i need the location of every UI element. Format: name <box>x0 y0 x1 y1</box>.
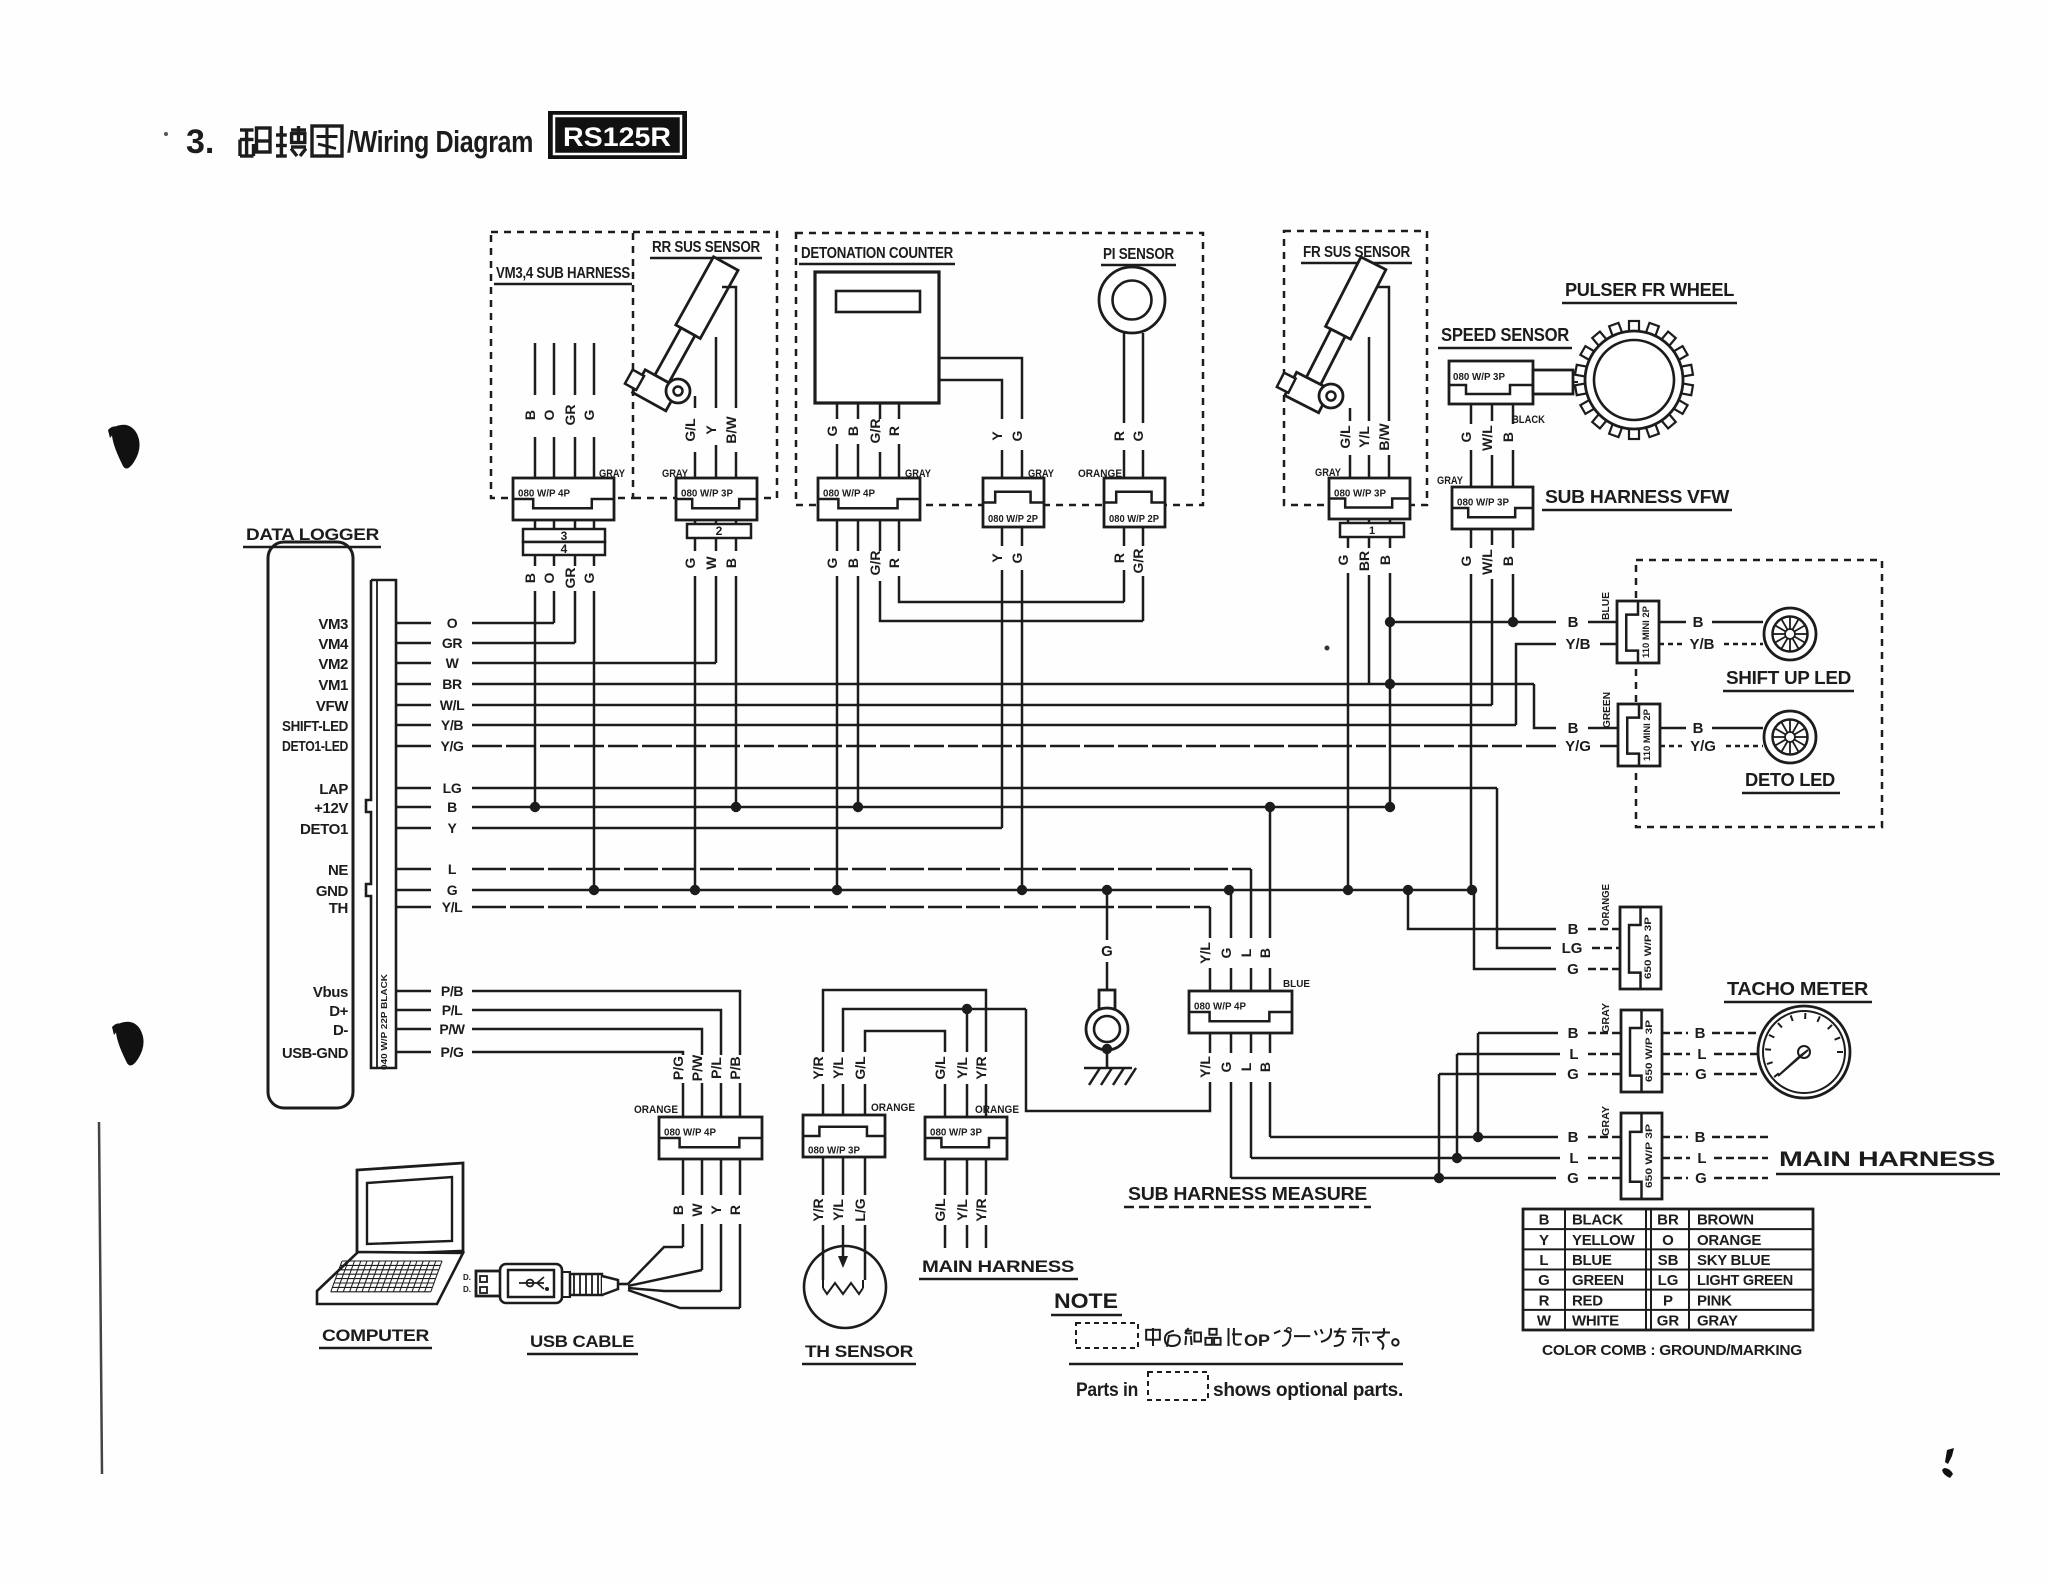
svg-text:GR: GR <box>562 568 578 589</box>
svg-text:VM4: VM4 <box>318 636 349 653</box>
junction dots main harness bus <box>1473 1132 1483 1142</box>
svg-text:Y/B: Y/B <box>1689 636 1714 653</box>
svg-text:R: R <box>1111 553 1127 563</box>
svg-text:O: O <box>447 615 458 631</box>
svg-text:110 MINI 2P: 110 MINI 2P <box>1642 708 1653 761</box>
wire stubs and colour labels at data logger <box>396 622 431 625</box>
connector 110 MINI 2P (deto LED) <box>1618 704 1660 766</box>
USB wires below connector <box>682 1159 685 1195</box>
svg-text:L: L <box>448 861 457 877</box>
wire det B to +12V row <box>857 576 860 807</box>
svg-text:Y/L: Y/L <box>954 1199 970 1221</box>
svg-text:NE: NE <box>328 862 348 879</box>
svg-text:COLOR COMB : GROUND/MARKING: COLOR COMB : GROUND/MARKING <box>1542 1342 1802 1359</box>
svg-text:B: B <box>1695 1025 1706 1042</box>
svg-text:B: B <box>1568 1129 1579 1146</box>
svg-text:G: G <box>824 557 840 568</box>
wire det G to GND row <box>836 576 839 890</box>
RR wires lower <box>694 538 697 551</box>
svg-text:080 W/P 3P: 080 W/P 3P <box>1334 487 1386 499</box>
detonation counter body <box>815 272 939 403</box>
wire TH Y/L link with junction to main harness <box>843 1009 1026 1117</box>
wire Y to DETO1 row <box>1001 570 1004 828</box>
svg-text:L: L <box>1569 1046 1578 1063</box>
svg-text:B: B <box>1568 614 1579 631</box>
FR sensor wires upper <box>1378 287 1389 421</box>
ground lug <box>1099 990 1115 1012</box>
USB cable ridges <box>570 1274 602 1295</box>
svg-text:Y/L: Y/L <box>830 1057 846 1079</box>
svg-text:Y/L: Y/L <box>830 1199 846 1221</box>
main harness wires below connector <box>944 1159 947 1195</box>
svg-text:RED: RED <box>1572 1292 1603 1309</box>
svg-text:USB CABLE: USB CABLE <box>530 1332 634 1351</box>
junction dot Y/L <box>962 1004 972 1014</box>
svg-text:P/L: P/L <box>708 1057 724 1079</box>
Japanese note text <box>1146 1330 1160 1340</box>
svg-text:R: R <box>1539 1292 1550 1309</box>
svg-text:DETO1-LED: DETO1-LED <box>282 738 348 755</box>
svg-text:080 W/P 4P: 080 W/P 4P <box>518 488 570 500</box>
svg-text:SUB HARNESS VFW: SUB HARNESS VFW <box>1545 487 1729 507</box>
wire P/W row D- <box>472 1029 702 1055</box>
svg-text:L: L <box>1569 1150 1578 1167</box>
svg-text:Y: Y <box>708 1205 724 1215</box>
svg-text:DATA LOGGER: DATA LOGGER <box>246 525 379 544</box>
connector 110 MINI 2P (shift LED) <box>1617 601 1659 663</box>
svg-text:O: O <box>541 572 557 583</box>
svg-text:BR: BR <box>1657 1212 1679 1229</box>
tacho connector left wires <box>1478 1032 1558 1035</box>
speed sensor wires to VFW connector <box>1470 404 1473 424</box>
svg-text:shows optional parts.: shows optional parts. <box>1213 1380 1403 1401</box>
svg-text:ORANGE: ORANGE <box>1601 884 1612 926</box>
pin number box 2 <box>687 524 751 538</box>
wire B line to SHIFT UP LED connector <box>1390 621 1556 624</box>
connector 080 W/P 3P (main harness) <box>925 1117 1007 1159</box>
svg-text:PINK: PINK <box>1697 1292 1732 1309</box>
svg-text:ORANGE: ORANGE <box>1697 1232 1761 1249</box>
svg-text:GRAY: GRAY <box>1697 1312 1738 1329</box>
svg-text:COMPUTER: COMPUTER <box>322 1326 429 1345</box>
svg-text:G: G <box>1458 431 1474 442</box>
scan artifact blob left upper <box>112 425 140 469</box>
pin number box 1 <box>1340 523 1404 537</box>
svg-text:B: B <box>1500 432 1516 442</box>
svg-text:1: 1 <box>1369 525 1375 537</box>
svg-text:+12V: +12V <box>314 800 348 817</box>
wire G/R down to det G/R link <box>1142 576 1145 621</box>
RR sensor wires upper <box>722 287 736 408</box>
svg-text:G: G <box>824 425 840 436</box>
PI wires below <box>1123 527 1126 546</box>
dashed option sample box 1 <box>1076 1323 1138 1348</box>
svg-text:Y/L: Y/L <box>442 899 463 915</box>
svg-text:R: R <box>886 426 902 436</box>
wire P/B row Vbus <box>472 991 740 1055</box>
svg-text:W/L: W/L <box>1479 425 1495 451</box>
svg-text:Y/L: Y/L <box>1356 426 1372 448</box>
pin number boxes 3 / 4 <box>523 529 605 542</box>
svg-text:PI SENSOR: PI SENSOR <box>1103 246 1175 263</box>
svg-text:D+: D+ <box>329 1003 348 1020</box>
FR suspension sensor drawing <box>1275 250 1390 413</box>
wire G to GND row <box>694 576 697 890</box>
svg-text:G: G <box>1009 552 1025 563</box>
svg-text:YELLOW: YELLOW <box>1572 1232 1636 1249</box>
svg-text:BLACK: BLACK <box>1512 414 1545 426</box>
wire O row VM3 <box>472 622 554 625</box>
wire LG feed from LAP row <box>1497 788 1551 948</box>
wire LG row LAP <box>472 787 1497 790</box>
wire VFW B to LED B line <box>1512 574 1515 622</box>
svg-text:G: G <box>1218 1061 1234 1072</box>
connector 080 W/P 4P (det) <box>818 478 920 520</box>
svg-text:080 W/P 3P: 080 W/P 3P <box>930 1127 982 1139</box>
svg-text:SKY BLUE: SKY BLUE <box>1697 1252 1770 1269</box>
wire L row NE <box>472 868 1251 871</box>
svg-text:080 W/P 2P: 080 W/P 2P <box>988 513 1038 525</box>
deto LED right wires <box>1660 727 1686 730</box>
wire det G/R to PI G/R <box>880 581 1143 621</box>
wire Y/B row SHIFT-LED <box>472 724 1516 727</box>
TH sensor thermistor <box>822 1225 825 1280</box>
svg-text:B: B <box>522 410 538 420</box>
svg-text:W: W <box>703 556 719 570</box>
svg-text:TH SENSOR: TH SENSOR <box>805 1342 913 1361</box>
svg-text:080 W/P 3P: 080 W/P 3P <box>1457 497 1509 509</box>
wire BR row VM1 extending to DETO LED B feed <box>472 683 1534 686</box>
svg-text:Y: Y <box>989 553 1005 563</box>
svg-text:D-: D- <box>333 1022 348 1039</box>
svg-text:GREEN: GREEN <box>1602 692 1613 728</box>
tacho meter gauge <box>1758 1006 1850 1098</box>
svg-text:Y/B: Y/B <box>441 717 463 733</box>
svg-text:Y/G: Y/G <box>1565 738 1591 755</box>
svg-text:B/W: B/W <box>723 416 739 444</box>
VM3,4 harness wires upper <box>534 343 537 395</box>
svg-text:B: B <box>1568 720 1579 737</box>
svg-text:O: O <box>541 409 557 420</box>
svg-text:L: L <box>1238 948 1254 957</box>
scan artifact blob left lower <box>116 1022 144 1066</box>
svg-text:080 W/P 4P: 080 W/P 4P <box>823 488 875 500</box>
title badge RS125R <box>548 111 687 159</box>
connector 080 W/P 3P (TH sensor) <box>803 1115 885 1157</box>
RR suspension sensor drawing <box>623 249 742 411</box>
wire G to main-harness G bus <box>1230 1082 1233 1178</box>
svg-text:MAIN HARNESS: MAIN HARNESS <box>1779 1148 1995 1171</box>
connector 080 W/P 3P (FR) <box>1329 478 1410 519</box>
svg-text:GRAY: GRAY <box>1601 1003 1612 1033</box>
detonation counter display window <box>836 291 920 312</box>
svg-text:P: P <box>1663 1292 1673 1309</box>
svg-text:3.: 3. <box>186 123 214 161</box>
svg-text:VM2: VM2 <box>318 656 348 673</box>
tacho B L G bus verticals <box>1477 1033 1480 1137</box>
svg-text:L: L <box>1697 1150 1706 1167</box>
svg-text:Y: Y <box>448 820 458 836</box>
svg-text:Y: Y <box>989 431 1005 441</box>
wire GR row VM4 <box>472 642 575 645</box>
svg-text:SPEED SENSOR: SPEED SENSOR <box>1441 325 1569 345</box>
svg-text:G/R: G/R <box>1130 549 1146 574</box>
svg-text:G: G <box>1335 554 1351 565</box>
svg-text:SHIFT-LED: SHIFT-LED <box>282 718 348 735</box>
svg-text:B: B <box>522 573 538 583</box>
svg-text:G: G <box>581 409 597 420</box>
svg-text:BROWN: BROWN <box>1697 1212 1754 1229</box>
svg-text:B: B <box>845 558 861 568</box>
connector 080 W/P 4P (VM3,4) <box>513 478 614 520</box>
svg-text:LG: LG <box>1658 1272 1679 1289</box>
svg-text:P/L: P/L <box>442 1002 463 1018</box>
wire Y/G into DETO LED connector <box>1558 745 1560 747</box>
wire GR to VM4 row <box>574 591 577 643</box>
svg-text:SB: SB <box>1658 1252 1679 1269</box>
pulser ring gear <box>1575 321 1693 439</box>
svg-text:P/W: P/W <box>439 1021 465 1037</box>
tacho right wires <box>1662 1032 1688 1035</box>
svg-text:L/G: L/G <box>852 1198 868 1221</box>
svg-text:BR: BR <box>442 676 462 692</box>
svg-text:Y/G: Y/G <box>1690 738 1716 755</box>
svg-text:G/L: G/L <box>852 1056 868 1080</box>
PI sensor wires <box>1123 332 1126 423</box>
RR sensor pivot eye <box>666 379 690 403</box>
svg-text:USB-GND: USB-GND <box>282 1045 349 1062</box>
connector 080 W/P 2P (PI) <box>1104 478 1165 527</box>
svg-text:G: G <box>1458 555 1474 566</box>
TH sensor wires below connector <box>822 1157 825 1195</box>
svg-text:Vbus: Vbus <box>313 984 348 1001</box>
svg-text:G: G <box>447 882 458 898</box>
svg-text:G: G <box>1567 961 1579 978</box>
svg-text:O: O <box>1662 1232 1674 1249</box>
connector 080 W/P 3P (SUB HARNESS VFW) <box>1452 487 1533 529</box>
laptop keyboard grid <box>331 1261 442 1292</box>
svg-text:BLUE: BLUE <box>1601 592 1612 620</box>
wire B to +12V row <box>735 576 738 807</box>
ground wire from GND row <box>1106 890 1109 940</box>
dashed option box SHIFT UP LED / DETO LED <box>1636 560 1882 827</box>
svg-text:D.: D. <box>463 1285 471 1294</box>
svg-text:DETO1: DETO1 <box>300 821 348 838</box>
svg-text:Y/R: Y/R <box>810 1056 826 1079</box>
data logger 22P connector bar <box>366 580 396 1068</box>
FR wires lower <box>1347 537 1350 548</box>
svg-text:GR: GR <box>562 405 578 426</box>
svg-text:4: 4 <box>561 542 568 556</box>
svg-text:B: B <box>1539 1212 1550 1229</box>
svg-text:B: B <box>1568 1025 1579 1042</box>
svg-text:B: B <box>447 799 457 815</box>
wire W to VM2 row <box>715 576 718 663</box>
svg-text:G: G <box>1218 947 1234 958</box>
svg-text:Y/L: Y/L <box>954 1057 970 1079</box>
scan artifact vertical line left margin <box>99 1122 102 1474</box>
svg-text:650 W/P 3P: 650 W/P 3P <box>1643 916 1654 979</box>
svg-text:Y/R: Y/R <box>973 1198 989 1221</box>
dashed option box FR SUS SENSOR <box>1284 231 1427 505</box>
svg-text:080 W/P 3P: 080 W/P 3P <box>1453 371 1505 383</box>
svg-text:L: L <box>1697 1046 1706 1063</box>
svg-text:G/L: G/L <box>1337 425 1353 449</box>
dashed option sample box 2 <box>1148 1372 1208 1400</box>
wire B row +12V <box>472 806 1390 809</box>
det wires below connector <box>836 520 839 551</box>
det counter wires to connector <box>836 403 839 419</box>
svg-text:ORANGE: ORANGE <box>871 1102 915 1114</box>
connector 650 W/P 3P (orange, tacho harness) <box>1620 907 1661 989</box>
svg-text:040 W/P 22P BLACK: 040 W/P 22P BLACK <box>379 973 389 1070</box>
svg-text:W: W <box>1537 1312 1552 1329</box>
svg-text:G/R: G/R <box>867 419 883 444</box>
wire TH Y/R link <box>823 990 986 1117</box>
connector 080 W/P 3P (RR) <box>676 478 757 520</box>
wire W row VM2 <box>472 662 716 665</box>
wire Y/B up from SHIFT-LED row <box>1516 644 1556 725</box>
svg-text:G: G <box>1695 1170 1707 1187</box>
junction dots GND G net <box>589 885 599 895</box>
svg-text:L: L <box>1539 1252 1548 1269</box>
wire L to main-harness L bus <box>1250 1082 1253 1158</box>
svg-text:B: B <box>1500 556 1516 566</box>
svg-text:VM3: VM3 <box>318 616 348 633</box>
PI sensor ring <box>1099 267 1165 333</box>
svg-text:B: B <box>670 1205 686 1215</box>
svg-text:MAIN HARNESS: MAIN HARNESS <box>922 1257 1074 1276</box>
wire Y/L row TH <box>472 906 1210 909</box>
svg-text:BLACK: BLACK <box>1572 1212 1623 1229</box>
wire B to +12V row <box>534 591 537 807</box>
svg-text:GR: GR <box>1657 1312 1680 1329</box>
connector 080 W/P 2P (det) <box>983 478 1044 527</box>
svg-text:BLUE: BLUE <box>1283 978 1310 990</box>
wire G row GND <box>472 889 1474 892</box>
wire FR B to +12V row (junctions with LED B lines) <box>1389 573 1392 807</box>
svg-text:650 W/P 3P: 650 W/P 3P <box>1644 1123 1655 1188</box>
wire G to GND row <box>1021 570 1024 890</box>
svg-text:G/L: G/L <box>932 1056 948 1080</box>
DETO LED lamp <box>1764 711 1816 763</box>
wire P/L row D+ <box>472 1010 721 1055</box>
speed sensor probe tab <box>1533 370 1573 394</box>
svg-text:TH: TH <box>329 900 348 917</box>
svg-text:R: R <box>1111 431 1127 441</box>
svg-text:G/R: G/R <box>867 551 883 576</box>
det counter right-side wires to 2P connector <box>939 358 1022 419</box>
scan artifact page number 5 bottom right <box>1942 1448 1954 1478</box>
wire FR BR to VM1 row <box>1368 575 1371 684</box>
tacho needle <box>1798 1046 1810 1058</box>
svg-text:PULSER FR WHEEL: PULSER FR WHEEL <box>1565 280 1734 300</box>
svg-text:VM1: VM1 <box>318 677 348 694</box>
wire O to VM3 row <box>553 591 556 623</box>
svg-text:080 W/P 3P: 080 W/P 3P <box>681 488 733 500</box>
SHIFT UP LED lamp <box>1764 608 1816 660</box>
FR sensor pivot eye <box>1319 384 1343 408</box>
svg-text:G: G <box>1695 1066 1707 1083</box>
svg-text:L: L <box>1238 1062 1254 1071</box>
svg-text:W/L: W/L <box>440 697 465 713</box>
svg-text:Y/G: Y/G <box>441 738 464 754</box>
svg-text:B/W: B/W <box>1376 423 1392 451</box>
svg-text:G: G <box>1130 430 1146 441</box>
wire Y row DETO1 <box>472 827 1002 830</box>
svg-text:B: B <box>1693 614 1704 631</box>
svg-text:WHITE: WHITE <box>1572 1312 1619 1329</box>
dashed option box RR SUS SENSOR <box>633 232 777 498</box>
junction dots LED B line <box>1385 617 1395 627</box>
svg-text:B: B <box>1377 555 1393 565</box>
svg-text:P/B: P/B <box>441 983 463 999</box>
wire VFW G to GND row <box>1470 574 1473 890</box>
svg-text:110 MINI 2P: 110 MINI 2P <box>1641 605 1652 658</box>
svg-text:/Wiring Diagram: /Wiring Diagram <box>347 124 533 159</box>
wire B to main-harness B bus <box>1269 1082 1272 1137</box>
svg-text:GRAY: GRAY <box>1437 475 1464 487</box>
svg-text:FR SUS SENSOR: FR SUS SENSOR <box>1303 244 1411 261</box>
svg-text:RR SUS SENSOR: RR SUS SENSOR <box>652 239 761 256</box>
svg-text:GND: GND <box>316 883 349 900</box>
svg-text:SUB HARNESS MEASURE: SUB HARNESS MEASURE <box>1128 1184 1367 1204</box>
svg-text:G/L: G/L <box>682 418 698 442</box>
VM3,4 harness wires lower <box>534 555 537 566</box>
svg-text:3: 3 <box>561 529 568 543</box>
dashed option box VM3,4 SUB HARNESS <box>491 232 633 498</box>
svg-text:LAP: LAP <box>319 781 348 798</box>
wire B feed to DETO LED connector (from BR/B junction) <box>1534 684 1556 728</box>
svg-text:OP: OP <box>1244 1331 1270 1350</box>
wire Y/L from TH row down to 4P connector <box>1209 907 1212 938</box>
junction dots +12V B net <box>530 802 540 812</box>
wire Y/G row DETO1-LED <box>472 745 1558 748</box>
svg-text:LG: LG <box>1562 940 1583 957</box>
wire P/G row USB-GND <box>472 1052 683 1055</box>
svg-text:LIGHT GREEN: LIGHT GREEN <box>1697 1272 1793 1289</box>
svg-text:080 W/P 3P: 080 W/P 3P <box>808 1144 860 1156</box>
svg-text:Y/R: Y/R <box>810 1198 826 1221</box>
svg-text:W: W <box>446 655 460 671</box>
wire TH G/L link <box>865 1031 945 1117</box>
svg-text:G: G <box>682 557 698 568</box>
dashed option box DETONATION COUNTER / PI SENSOR <box>796 233 1203 505</box>
speed sensor connector 080 W/P 3P <box>1449 361 1533 404</box>
svg-text:G/L: G/L <box>932 1198 948 1222</box>
svg-text:G: G <box>1101 943 1113 960</box>
svg-text:Y: Y <box>1539 1232 1549 1249</box>
connector 080 W/P 4P (sub harness measure) <box>1189 991 1292 1033</box>
wire G to GND row <box>593 591 596 890</box>
svg-text:GRAY: GRAY <box>1601 1106 1612 1136</box>
connector 650 W/P 3P (main harness) <box>1621 1113 1662 1199</box>
wire G feed from GND row corner <box>1474 890 1556 969</box>
svg-text:R: R <box>727 1205 743 1215</box>
svg-text:G: G <box>1009 430 1025 441</box>
scan speck near FR wires <box>1325 646 1330 651</box>
svg-text:P/G: P/G <box>441 1044 464 1060</box>
svg-text:Y/L: Y/L <box>1197 942 1213 964</box>
svg-text:2: 2 <box>716 524 723 538</box>
svg-text:080 W/P 4P: 080 W/P 4P <box>1194 1001 1246 1013</box>
connector 650 W/P 3P (tacho meter) <box>1621 1010 1662 1092</box>
svg-text:Y/B: Y/B <box>1565 636 1590 653</box>
svg-text:080 W/P 4P: 080 W/P 4P <box>664 1127 716 1139</box>
wire B feed (GND) to orange 3P connector <box>1408 890 1556 929</box>
svg-text:Y: Y <box>703 425 719 435</box>
USB plug drawing <box>476 1271 502 1296</box>
